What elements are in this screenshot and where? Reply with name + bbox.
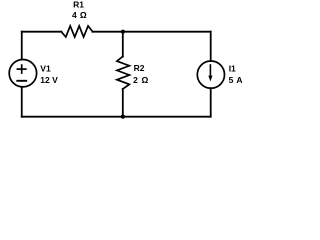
svg-text:Ω: Ω [142,75,149,85]
svg-text:R1: R1 [73,0,84,10]
svg-text:Ω: Ω [80,10,87,20]
svg-text:2: 2 [133,75,138,85]
svg-text:4: 4 [72,10,77,20]
svg-text:I1: I1 [229,63,236,73]
svg-text:A: A [236,75,242,85]
svg-text:V1: V1 [40,63,51,73]
svg-text:5: 5 [229,75,234,85]
svg-text:12 V: 12 V [40,75,58,85]
svg-text:R2: R2 [134,63,145,73]
